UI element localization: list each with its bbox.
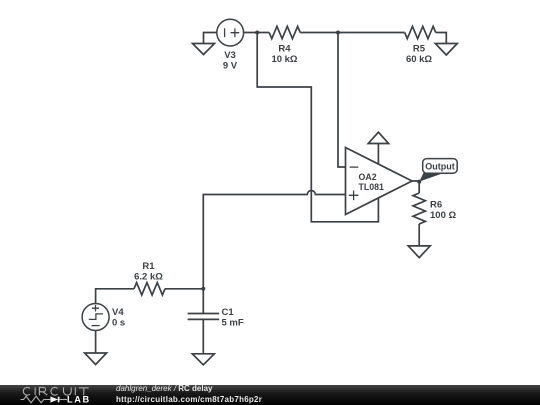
wire R1 to node C bbox=[165, 288, 203, 290]
footer bar bbox=[0, 385, 540, 405]
svg-text:V4: V4 bbox=[112, 307, 124, 318]
svg-text:LAB: LAB bbox=[67, 395, 91, 405]
ground (V3) bbox=[193, 44, 215, 55]
label C1 5 mF bbox=[222, 307, 244, 329]
wire R5 to ground bbox=[436, 33, 447, 44]
wire R6 to ground bbox=[418, 224, 420, 246]
svg-text:TL081: TL081 bbox=[359, 182, 385, 192]
footer credit text bbox=[116, 384, 213, 393]
voltage source V3 bbox=[217, 19, 244, 46]
ground (V4) bbox=[85, 353, 107, 365]
label R1 6.2 kOhm bbox=[134, 261, 163, 283]
resistor R6 bbox=[413, 193, 425, 224]
ground (R5) bbox=[435, 44, 457, 56]
svg-text:6.2 kΩ: 6.2 kΩ bbox=[134, 272, 163, 283]
wire C1 to ground bbox=[202, 319, 204, 353]
wire R4 to R5 bbox=[300, 32, 405, 34]
output flag pointer bbox=[419, 173, 444, 182]
svg-text:V3: V3 bbox=[224, 50, 236, 61]
op-amp OA2 bbox=[346, 148, 413, 215]
svg-text:C1: C1 bbox=[222, 307, 235, 318]
wire V4 to ground bbox=[95, 331, 97, 354]
label R6 100 Ohm bbox=[430, 200, 456, 222]
svg-text:R4: R4 bbox=[278, 44, 291, 55]
label R5 60 kOhm bbox=[406, 44, 432, 66]
power arrow V+ (op-amp supply) bbox=[368, 132, 388, 164]
wire op-amp output to node D bbox=[412, 181, 419, 193]
wire node C to capacitor C1 bbox=[202, 290, 204, 314]
label OA2 TL081 bbox=[359, 172, 385, 192]
voltage source V4 bbox=[82, 304, 109, 331]
svg-text:9 V: 9 V bbox=[223, 61, 238, 72]
svg-text:10 kΩ: 10 kΩ bbox=[271, 54, 297, 65]
output flag bbox=[423, 159, 458, 174]
label R4 10 kOhm bbox=[271, 44, 297, 66]
resistor R5 bbox=[405, 26, 436, 38]
ground (C1) bbox=[192, 354, 214, 365]
svg-text:R1: R1 bbox=[142, 261, 155, 272]
svg-text:R6: R6 bbox=[430, 200, 442, 211]
resistor R1 bbox=[134, 283, 165, 295]
svg-text:Output: Output bbox=[425, 162, 455, 172]
svg-text:5 mF: 5 mF bbox=[222, 318, 244, 329]
node B junction bbox=[336, 31, 340, 35]
svg-text:0 s: 0 s bbox=[112, 318, 125, 329]
node D junction bbox=[417, 180, 421, 184]
svg-text:OA2: OA2 bbox=[359, 172, 377, 182]
wire node A to op-amp V- supply bbox=[257, 34, 378, 222]
wire node B to inverting input bbox=[338, 34, 346, 168]
resistor R4 bbox=[269, 26, 300, 38]
CircuitLab logo bbox=[15, 383, 105, 405]
label V4 0 s bbox=[112, 307, 125, 329]
svg-text:60 kΩ: 60 kΩ bbox=[406, 54, 432, 65]
ground (R6) bbox=[408, 246, 430, 258]
label V3 9 V bbox=[223, 50, 238, 72]
wire V3 negative to ground bbox=[204, 33, 217, 44]
wire V4 to R1 bbox=[96, 289, 134, 304]
footer url text bbox=[116, 395, 262, 404]
wire V3 positive to node A bbox=[244, 32, 270, 34]
node A junction bbox=[255, 31, 259, 35]
svg-text:R5: R5 bbox=[413, 44, 426, 55]
svg-text:100 Ω: 100 Ω bbox=[430, 210, 456, 221]
node C junction bbox=[201, 287, 205, 291]
wire node C to non-inverting input (hop over) bbox=[203, 191, 345, 289]
capacitor C1 bbox=[188, 314, 220, 320]
